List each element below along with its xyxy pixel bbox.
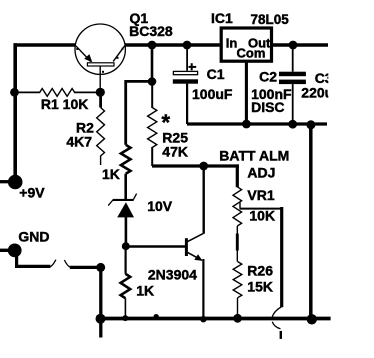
svg-text:15K: 15K [247,279,273,295]
svg-text:Com: Com [237,46,266,61]
svg-text:R26: R26 [247,263,273,279]
svg-text:78L05: 78L05 [251,12,290,27]
svg-text:2N3904: 2N3904 [148,266,197,282]
svg-text:10V: 10V [147,198,173,214]
svg-text:+9V: +9V [19,185,45,201]
svg-text:C1: C1 [207,66,225,82]
svg-text:BATT ALM: BATT ALM [219,148,289,164]
svg-text:1K: 1K [136,283,154,299]
svg-text:GND: GND [18,229,49,245]
svg-text:R1 10K: R1 10K [41,96,88,112]
svg-text:BC328: BC328 [129,23,173,39]
svg-text:C2: C2 [259,69,277,85]
svg-text:47K: 47K [162,144,188,160]
svg-text:ADJ: ADJ [247,164,275,180]
svg-text:10K: 10K [249,208,275,224]
svg-text:100uF: 100uF [192,86,233,102]
svg-text:4K7: 4K7 [66,134,92,150]
svg-text:IC1: IC1 [211,10,233,26]
svg-text:DISC: DISC [251,99,284,115]
svg-text:1K: 1K [102,166,120,182]
svg-text:VR1: VR1 [247,187,274,203]
